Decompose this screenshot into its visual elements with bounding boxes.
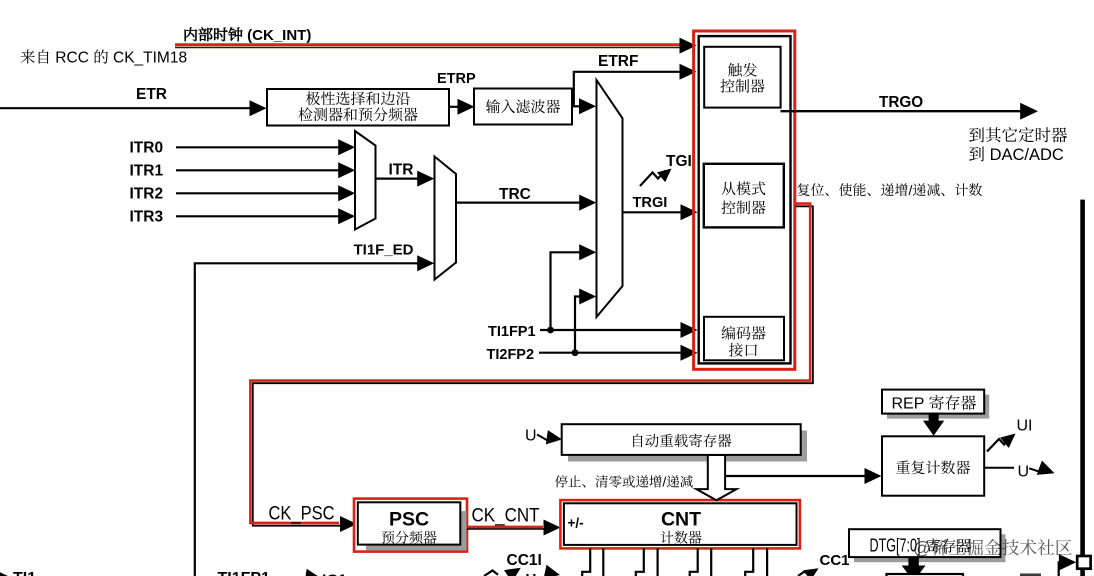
PSC shadow: [366, 511, 467, 551]
wire TRGO: [781, 110, 1023, 112]
svg-text:TI1FP1: TI1FP1: [488, 324, 536, 340]
svg-text:ITR2: ITR2: [130, 186, 164, 203]
svg-text:ITR0: ITR0: [130, 140, 164, 157]
svg-text:停止、清零或递增/递减: 停止、清零或递增/递减: [555, 471, 694, 491]
junction dot TI2FP2: [572, 349, 579, 356]
arrowhead TI1 partial bottom left: [0, 570, 10, 576]
bold arrow REP to repetition counter: [923, 413, 944, 436]
svg-text:计数器: 计数器: [660, 527, 702, 547]
bold arrow DTG down: [902, 557, 926, 576]
PSC red highlight box: [354, 499, 467, 552]
svg-text:控制器: 控制器: [720, 76, 765, 97]
box: REP 寄存器 shadow: [887, 395, 989, 419]
svg-text:预分频器: 预分频器: [381, 527, 437, 547]
box: DTG 寄存器 shadow: [854, 534, 1006, 562]
svg-text:复位、使能、递增/递减、计数: 复位、使能、递增/递减、计数: [797, 180, 983, 200]
box: 自动重载寄存器 shadow: [568, 431, 807, 462]
thick wire far right vertical: [1080, 200, 1085, 576]
svg-text:CC1I: CC1I: [507, 552, 542, 569]
svg-text:TI1F_ED: TI1F_ED: [354, 242, 414, 259]
box: DTG[7:0] 寄存器: [849, 529, 1001, 557]
wire CK_CNT black underlay: [467, 528, 545, 530]
svg-text:CK_CNT: CK_CNT: [472, 505, 540, 526]
box partial at bottom below DTG: [887, 574, 964, 576]
wire ITR1: [176, 169, 340, 171]
box: 自动重载寄存器 auto-reload register: [562, 424, 801, 455]
arrowhead CK_CNT into CNT: [544, 520, 561, 536]
wire polarity box to input filter: [449, 106, 459, 108]
svg-text:重复计数器: 重复计数器: [895, 457, 970, 478]
box: 编码器接口 encoder interface: [704, 317, 784, 361]
wires capture compare below CNT: [582, 548, 767, 576]
svg-text:@稀土掘金技术社区: @稀土掘金技术社区: [913, 535, 1072, 560]
svg-text:TI1FP1: TI1FP1: [218, 570, 271, 576]
wire ETRF branch up and right: [574, 72, 680, 106]
wire CK_CNT red: [467, 526, 543, 529]
svg-text:输入滤波器: 输入滤波器: [485, 96, 560, 117]
wire ITR2: [176, 192, 340, 194]
squiggle arrow U event: [1029, 467, 1042, 473]
zigzag interrupt arrow UI: [987, 437, 1011, 452]
box: CNT 计数器 counter: [564, 503, 797, 545]
wire ITR3: [176, 215, 340, 217]
arrowhead ITR3: [338, 208, 355, 224]
wire into small break box: [1059, 562, 1062, 576]
CNT red highlight box: [560, 500, 800, 548]
wire TRC: [456, 202, 581, 204]
arrowhead ITR into second mux: [417, 171, 434, 187]
svg-text:来自 RCC 的 CK_TIM18: 来自 RCC 的 CK_TIM18: [20, 49, 187, 66]
box: 输入滤波器 input filter: [474, 89, 572, 125]
box: 触发控制器 trigger controller: [704, 47, 780, 108]
arrowhead TI1FP1 branch into mux: [579, 244, 596, 260]
wire CK_INT dark underlay: [175, 46, 680, 48]
junction dot TI1FP1: [547, 327, 554, 334]
svg-text:到其它定时器: 到其它定时器: [969, 127, 1069, 145]
arrowhead CK_PSC into PSC: [340, 516, 357, 532]
svg-text:+/-: +/-: [568, 516, 584, 531]
svg-text:TRGI: TRGI: [633, 195, 668, 211]
arrowhead CK_INT into trigger controller: [680, 38, 697, 54]
arrowhead TRGI into slave mode controller: [681, 204, 698, 220]
mux ITR selector trapezoid: [355, 131, 376, 230]
box: REP 寄存器 register: [882, 390, 984, 414]
wire TI1FP1: [540, 329, 682, 331]
svg-text:REP 寄存器: REP 寄存器: [891, 395, 976, 413]
arrowhead into repetition counter: [865, 468, 882, 484]
zigzag arrow below CC1I: [484, 571, 498, 576]
arrowhead partial right of U: [544, 565, 562, 576]
arrowhead into small break box: [1059, 554, 1076, 570]
wire ETR: [0, 107, 251, 109]
arrowhead ETRF into trigger controller: [680, 64, 697, 80]
zigzag interrupt arrow TGI: [640, 171, 666, 187]
svg-text:ITR1: ITR1: [130, 163, 164, 180]
hollow down arrow auto-reload to CNT: [696, 455, 736, 500]
box partial bottom right edge: [1020, 574, 1041, 576]
svg-text:ETRF: ETRF: [598, 53, 638, 70]
inner black container box: [699, 36, 791, 363]
mux TRC selector trapezoid: [435, 157, 457, 280]
svg-text:TRC: TRC: [499, 186, 531, 203]
arrowhead TI1FP1 into encoder interface: [681, 322, 698, 338]
mux trigger-input selector trapezoid: [597, 80, 623, 317]
svg-text:IC1: IC1: [322, 573, 347, 576]
watermark juejin logo: [913, 535, 1072, 560]
wire slave-mode highlighted path red: [250, 204, 810, 523]
svg-text:控制器: 控制器: [721, 197, 766, 218]
wire TI1F_ED from bottom left up into second mux: [195, 263, 419, 576]
wire TRGI: [623, 211, 683, 213]
wire to repetition counter: [725, 475, 866, 477]
red highlight box around controllers: [694, 31, 795, 369]
wire ITR0: [176, 146, 340, 148]
arrowhead ITR1: [338, 162, 355, 178]
arrowhead TRGO: [1020, 103, 1038, 120]
svg-text:ETRP: ETRP: [437, 71, 476, 87]
svg-text:自动重载寄存器: 自动重载寄存器: [630, 430, 732, 451]
arrowhead ETRP into input filter: [458, 99, 475, 115]
arrowhead ITR2: [338, 185, 355, 201]
svg-text:U: U: [526, 571, 537, 576]
svg-text:U: U: [1018, 464, 1030, 481]
svg-text:ETR: ETR: [136, 86, 167, 103]
squiggle arrow into auto-reload register: [537, 435, 549, 442]
box: PSC 预分频器 prescaler: [358, 502, 461, 544]
arrowhead ITR0: [338, 139, 355, 155]
svg-text:TI2FP2: TI2FP2: [487, 347, 535, 363]
svg-text:U: U: [525, 428, 537, 445]
arrowhead IC1 partial: [305, 569, 321, 576]
wire TI2FP2 branch to trigger mux: [575, 297, 581, 353]
svg-text:CC1: CC1: [820, 552, 850, 569]
wire filter output to trigger mux: [572, 105, 580, 107]
small box bottom right: [1077, 556, 1090, 569]
arrowhead TRC into trigger mux: [579, 195, 596, 211]
wire ITR mux output: [376, 178, 420, 180]
arrowhead TI2FP2 branch into mux: [579, 289, 596, 305]
box: 从模式控制器 slave mode controller: [704, 164, 784, 228]
wire TI1FP1 branch to trigger mux: [551, 252, 582, 330]
svg-text:CK_PSC: CK_PSC: [269, 504, 335, 525]
box: 极性选择和边沿检测器和预分频器: [267, 89, 449, 126]
wire slave-mode highlighted path black underlay: [253, 206, 813, 525]
svg-text:到 DAC/ADC: 到 DAC/ADC: [969, 146, 1064, 164]
svg-text:ITR: ITR: [389, 162, 414, 179]
svg-text:ITR3: ITR3: [130, 209, 164, 226]
zigzag arrow below CC1: [798, 572, 809, 576]
arrowhead filter output into mux: [579, 98, 596, 114]
wire U output of repetition counter: [984, 467, 1014, 469]
svg-text:TI1: TI1: [13, 570, 36, 576]
box: 重复计数器 repetition counter: [882, 436, 984, 495]
wire CK_INT red clock line: [175, 43, 684, 46]
wire TI2FP2: [539, 352, 682, 354]
svg-text:内部时钟 (CK_INT): 内部时钟 (CK_INT): [183, 26, 311, 44]
svg-text:TGI: TGI: [666, 153, 692, 170]
arrowhead TI2FP2 into encoder interface: [681, 345, 698, 361]
arrowhead TI1F_ED into second mux: [417, 255, 434, 271]
svg-text:UI: UI: [1017, 418, 1033, 435]
svg-text:TRGO: TRGO: [879, 94, 923, 111]
arrowhead ETR into polarity box: [250, 100, 267, 116]
svg-text:接口: 接口: [728, 340, 758, 361]
svg-text:检测器和预分频器: 检测器和预分频器: [298, 104, 418, 125]
